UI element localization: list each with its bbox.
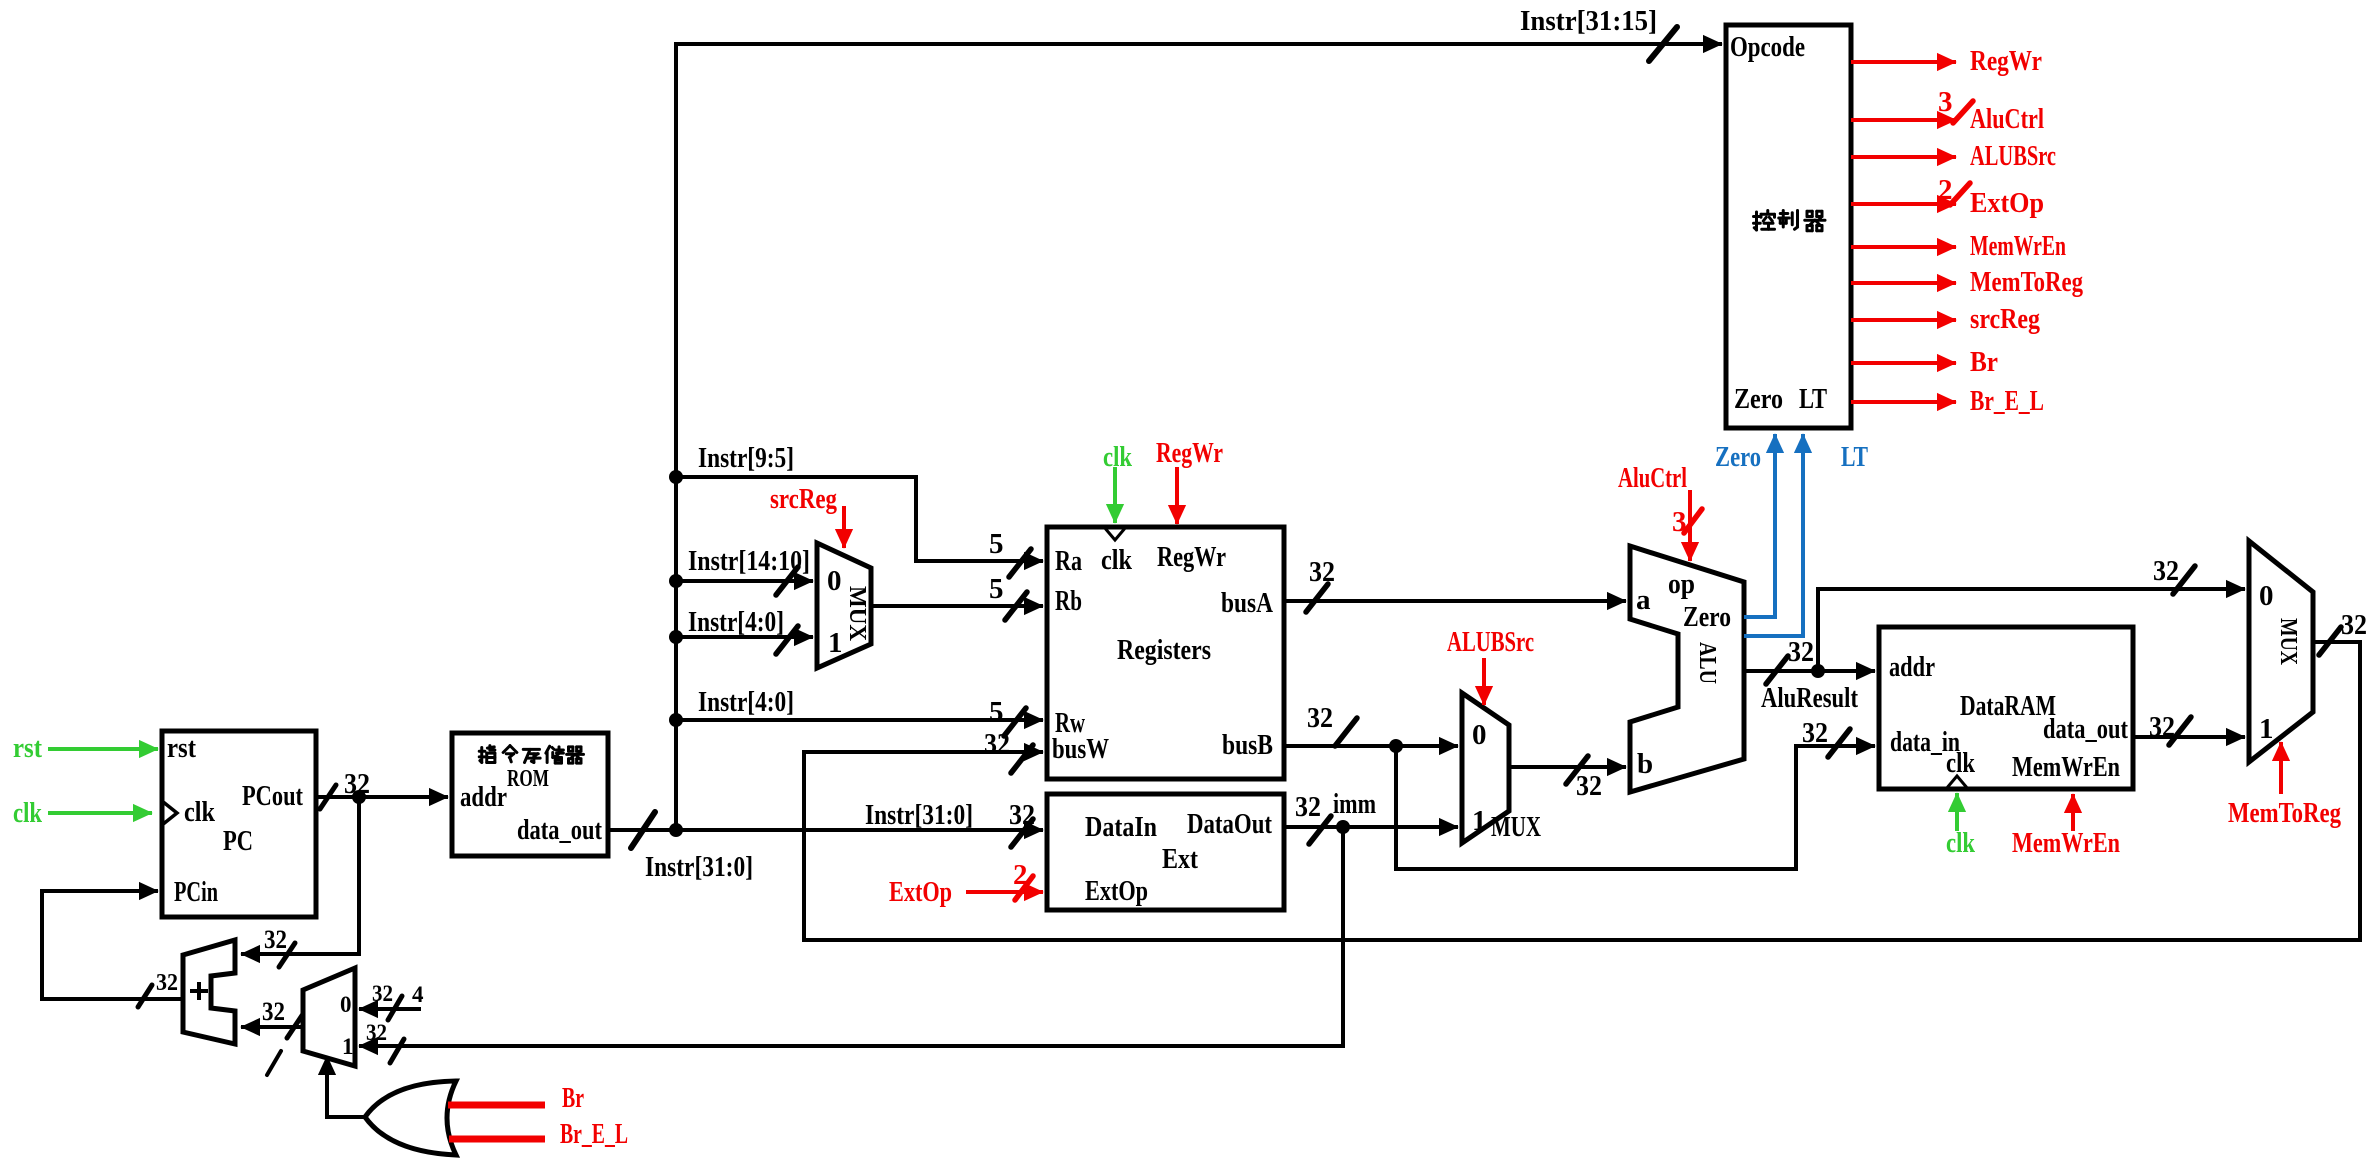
svg-text:1: 1 bbox=[1472, 805, 1487, 837]
svg-text:LT: LT bbox=[1841, 441, 1868, 473]
svg-text:DataRAM: DataRAM bbox=[1960, 690, 2056, 722]
svg-text:32: 32 bbox=[262, 997, 285, 1026]
svg-text:ROM: ROM bbox=[507, 766, 549, 792]
svg-text:MUX: MUX bbox=[844, 586, 870, 642]
svg-text:3: 3 bbox=[1938, 86, 1953, 118]
svg-text:0: 0 bbox=[1472, 719, 1487, 751]
svg-text:Instr[14:10]: Instr[14:10] bbox=[688, 545, 810, 577]
svg-text:DataOut: DataOut bbox=[1187, 808, 1272, 840]
svg-text:32: 32 bbox=[2153, 555, 2179, 587]
svg-text:Instr[31:15]: Instr[31:15] bbox=[1520, 5, 1657, 37]
svg-text:4: 4 bbox=[412, 982, 424, 1007]
svg-text:0: 0 bbox=[827, 565, 842, 597]
svg-text:5: 5 bbox=[989, 528, 1004, 560]
svg-text:32: 32 bbox=[2341, 609, 2367, 641]
svg-text:Br: Br bbox=[1970, 346, 1998, 378]
svg-text:PCout: PCout bbox=[242, 780, 303, 812]
svg-text:clk: clk bbox=[13, 797, 43, 829]
svg-text:ALUBSrc: ALUBSrc bbox=[1447, 626, 1534, 658]
svg-text:MemWrEn: MemWrEn bbox=[1970, 230, 2066, 262]
svg-text:Zero: Zero bbox=[1683, 601, 1731, 633]
svg-text:MUX: MUX bbox=[1491, 811, 1541, 843]
svg-text:MemToReg: MemToReg bbox=[1970, 266, 2083, 298]
svg-text:b: b bbox=[1637, 748, 1653, 780]
svg-text:ExtOp: ExtOp bbox=[1085, 875, 1148, 907]
svg-text:32: 32 bbox=[372, 981, 393, 1006]
svg-text:Opcode: Opcode bbox=[1730, 31, 1805, 63]
svg-text:3: 3 bbox=[1672, 506, 1687, 538]
svg-text:32: 32 bbox=[984, 728, 1010, 760]
svg-text:AluResult: AluResult bbox=[1761, 682, 1858, 714]
svg-text:rst: rst bbox=[167, 732, 196, 764]
svg-text:Instr[4:0]: Instr[4:0] bbox=[688, 606, 784, 638]
svg-text:LT: LT bbox=[1799, 383, 1827, 415]
svg-text:PC: PC bbox=[223, 825, 253, 857]
svg-text:RegWr: RegWr bbox=[1157, 541, 1226, 573]
svg-text:Registers: Registers bbox=[1117, 634, 1211, 666]
svg-text:32: 32 bbox=[156, 970, 178, 996]
svg-text:addr: addr bbox=[460, 781, 507, 813]
svg-text:imm: imm bbox=[1333, 788, 1376, 820]
svg-text:RegWr: RegWr bbox=[1156, 437, 1223, 469]
svg-text:Br_E_L: Br_E_L bbox=[1970, 385, 2044, 417]
svg-text:5: 5 bbox=[989, 696, 1004, 728]
svg-text:ExtOp: ExtOp bbox=[889, 876, 952, 908]
svg-text:32: 32 bbox=[1576, 770, 1602, 802]
svg-text:busA: busA bbox=[1221, 587, 1273, 619]
svg-text:Rb: Rb bbox=[1055, 585, 1082, 617]
svg-text:clk: clk bbox=[1946, 747, 1976, 779]
svg-text:addr: addr bbox=[1889, 651, 1935, 683]
svg-text:rst: rst bbox=[13, 732, 42, 764]
svg-text:data_out: data_out bbox=[2043, 713, 2128, 745]
svg-text:1: 1 bbox=[2259, 713, 2274, 745]
svg-text:32: 32 bbox=[1009, 799, 1035, 831]
svg-text:MemWrEn: MemWrEn bbox=[2012, 751, 2120, 783]
svg-text:32: 32 bbox=[1307, 702, 1333, 734]
svg-text:ALU: ALU bbox=[1694, 642, 1720, 684]
svg-text:data_out: data_out bbox=[517, 814, 602, 846]
svg-text:32: 32 bbox=[1295, 791, 1321, 823]
svg-text:2: 2 bbox=[1938, 174, 1953, 206]
svg-text:Zero: Zero bbox=[1734, 383, 1783, 415]
svg-text:Ra: Ra bbox=[1055, 545, 1082, 577]
svg-text:MemWrEn: MemWrEn bbox=[2012, 827, 2120, 859]
svg-text:AluCtrl: AluCtrl bbox=[1618, 462, 1687, 494]
svg-text:32: 32 bbox=[344, 768, 370, 800]
svg-text:32: 32 bbox=[1788, 636, 1814, 668]
svg-text:srcReg: srcReg bbox=[1970, 303, 2040, 335]
svg-text:srcReg: srcReg bbox=[770, 483, 837, 515]
svg-text:1: 1 bbox=[342, 1034, 354, 1059]
svg-text:32: 32 bbox=[366, 1020, 387, 1045]
svg-text:DataIn: DataIn bbox=[1085, 811, 1157, 843]
svg-text:clk: clk bbox=[1946, 827, 1976, 859]
svg-text:5: 5 bbox=[989, 573, 1004, 605]
svg-text:1: 1 bbox=[828, 627, 843, 659]
svg-text:PCin: PCin bbox=[174, 876, 218, 908]
svg-text:Br: Br bbox=[562, 1082, 584, 1114]
svg-text:32: 32 bbox=[2149, 711, 2175, 743]
svg-text:Instr[9:5]: Instr[9:5] bbox=[698, 442, 794, 474]
svg-text:busB: busB bbox=[1222, 729, 1273, 761]
svg-text:32: 32 bbox=[1309, 556, 1335, 588]
svg-text:ExtOp: ExtOp bbox=[1970, 187, 2044, 219]
svg-text:clk: clk bbox=[184, 796, 216, 828]
svg-text:MemToReg: MemToReg bbox=[2228, 797, 2341, 829]
svg-text:ALUBSrc: ALUBSrc bbox=[1970, 140, 2056, 172]
svg-text:2: 2 bbox=[1013, 859, 1028, 891]
svg-text:Br_E_L: Br_E_L bbox=[560, 1118, 628, 1150]
svg-text:op: op bbox=[1668, 568, 1695, 600]
svg-text:Zero: Zero bbox=[1715, 441, 1761, 473]
svg-text:busW: busW bbox=[1052, 733, 1109, 765]
svg-text:Instr[31:0]: Instr[31:0] bbox=[645, 851, 753, 883]
svg-text:Ext: Ext bbox=[1162, 843, 1198, 875]
svg-text:0: 0 bbox=[340, 992, 352, 1017]
svg-text:Instr[31:0]: Instr[31:0] bbox=[865, 799, 973, 831]
svg-text:MUX: MUX bbox=[2275, 618, 2301, 666]
svg-text:32: 32 bbox=[264, 925, 287, 954]
svg-text:0: 0 bbox=[2259, 580, 2274, 612]
svg-text:a: a bbox=[1636, 584, 1651, 616]
svg-text:AluCtrl: AluCtrl bbox=[1970, 103, 2044, 135]
svg-text:Instr[4:0]: Instr[4:0] bbox=[698, 686, 794, 718]
svg-text:32: 32 bbox=[1802, 717, 1828, 749]
svg-text:clk: clk bbox=[1103, 441, 1133, 473]
svg-text:clk: clk bbox=[1101, 544, 1133, 576]
svg-text:RegWr: RegWr bbox=[1970, 45, 2042, 77]
